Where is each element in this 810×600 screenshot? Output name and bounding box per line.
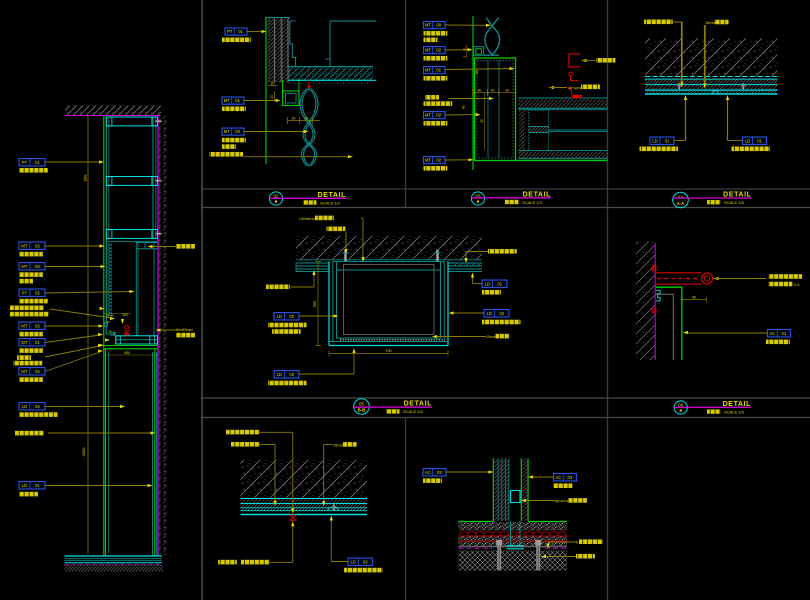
P2 label white translucent acrylic <box>210 152 244 157</box>
svg-text:60x60mm: 60x60mm <box>176 328 193 332</box>
P1 joint dims <box>104 313 131 315</box>
title block 02 DETAIL scale 1/2 <box>269 192 346 206</box>
P5 anchor bolts <box>344 250 346 261</box>
svg-text:01: 01 <box>497 282 502 287</box>
P6 cyan clip <box>656 290 660 301</box>
P7 label LD02 <box>348 558 373 566</box>
svg-text:B-B: B-B <box>358 408 365 413</box>
svg-text:700: 700 <box>385 349 391 353</box>
svg-text:95: 95 <box>475 70 479 74</box>
svg-text:LD: LD <box>652 139 657 144</box>
grid vertical divider x=405.5 bottom row <box>405 418 407 600</box>
P1 joint cyan bits <box>105 322 108 327</box>
P5 left wing layers <box>296 262 329 264</box>
P1 right label hang steel text <box>176 244 195 249</box>
P8 label AC02 <box>423 469 446 477</box>
P6 red LED track lines <box>655 272 701 274</box>
P4 layer lines <box>645 78 778 80</box>
P1 curtain section top line <box>106 240 157 242</box>
P7 layer lines <box>241 498 368 500</box>
svg-text:15mm: 15mm <box>486 335 497 339</box>
P5 dim 500 <box>317 262 319 346</box>
svg-text:01: 01 <box>35 483 40 488</box>
P3 bottom green line <box>516 159 608 161</box>
svg-text:LD: LD <box>22 483 27 488</box>
P1 wall hatch strip behind magenta <box>159 116 167 556</box>
svg-text:40*40*4: 40*40*4 <box>555 499 568 503</box>
svg-text:01: 01 <box>665 139 670 144</box>
title block 05 B-B DETAIL scale 1/3 <box>354 399 432 415</box>
P5 dim 700 <box>329 353 448 355</box>
P8 anchor bolts <box>496 540 502 546</box>
svg-text:20: 20 <box>292 116 296 120</box>
title block 03 DETAIL scale 1/3 <box>471 191 551 205</box>
P6 red wall clips <box>652 266 658 272</box>
svg-text:04: 04 <box>678 195 683 200</box>
svg-text:30: 30 <box>478 88 482 92</box>
svg-text:01: 01 <box>35 160 40 165</box>
P7 concrete slab hatch <box>241 460 368 498</box>
svg-text:25: 25 <box>304 116 308 120</box>
svg-text:06: 06 <box>678 402 683 407</box>
P6 wall hatch <box>636 242 655 361</box>
title block 04 A-A DETAIL scale 1/5 <box>673 192 752 208</box>
svg-text:LL4: LL4 <box>794 283 800 287</box>
P3 label MT02 metal 2 <box>424 112 446 119</box>
P8 floor speckle band <box>459 522 568 530</box>
P6 wall magenta line <box>654 243 656 360</box>
svg-text:6: 6 <box>576 541 578 545</box>
P4 fastener bolts <box>678 83 680 89</box>
P1 joint small arrows <box>100 307 105 310</box>
svg-text:02: 02 <box>35 291 40 296</box>
svg-text:MT: MT <box>21 340 27 345</box>
P1 bracket row <box>136 242 157 244</box>
P2 dim 20 left of trough <box>274 91 276 101</box>
P2 dim 20 25 below trough <box>288 120 321 122</box>
svg-text:L50x5mm: L50x5mm <box>299 217 316 221</box>
P5 label expansion bolt <box>327 227 346 232</box>
P5 label LD02 bottom <box>274 371 299 379</box>
svg-text:02: 02 <box>274 193 279 198</box>
P3 sign head green box <box>475 58 516 161</box>
svg-text:15mm: 15mm <box>333 442 344 447</box>
svg-text:MT: MT <box>21 244 27 249</box>
svg-text:MT: MT <box>21 324 27 329</box>
P1 curtain box verticals <box>135 242 137 336</box>
P3 vertical hatch band behind <box>519 110 525 158</box>
svg-text:30: 30 <box>505 88 509 92</box>
P1 floor hatch strokes <box>65 565 164 572</box>
P1 label MT00 wire mesh <box>19 263 45 271</box>
svg-text:800: 800 <box>83 174 88 181</box>
P2 label MT01 metal <box>222 97 244 104</box>
P2 acrylic braid <box>300 89 318 167</box>
P7 fastener bolt <box>333 504 335 510</box>
svg-text:20: 20 <box>491 88 495 92</box>
svg-text:MT: MT <box>425 68 431 73</box>
P2 structure above slab <box>329 21 331 67</box>
P1 dimension vertical line x=88 <box>87 116 89 555</box>
P8 connector tube <box>511 491 521 503</box>
svg-text:05: 05 <box>359 401 364 406</box>
P2 wall hatch band <box>268 18 290 83</box>
P1 front green vertical line <box>103 116 105 557</box>
svg-text:SCALE 1/2: SCALE 1/2 <box>320 200 341 205</box>
P1 floor magenta dashed line <box>65 563 164 565</box>
P1 cabinet rails <box>106 116 157 118</box>
svg-text:01: 01 <box>781 331 786 336</box>
P4 label LD01 left <box>650 137 674 145</box>
P3 angle steel label <box>549 86 554 89</box>
svg-text:15mm: 15mm <box>705 20 716 25</box>
grid horizontal line y=417.5 <box>202 417 810 419</box>
P1 ceiling slab hatch <box>65 106 161 116</box>
P1 sign box verticals <box>105 349 107 557</box>
svg-text:LD: LD <box>277 314 282 319</box>
svg-text:00: 00 <box>436 23 441 28</box>
P3 label MT02 metal 3 <box>424 157 446 164</box>
svg-text:MT: MT <box>224 98 230 103</box>
P3 internal cyan partitions <box>487 61 489 158</box>
P6 LED ring circle <box>702 273 713 284</box>
P8 centre post through floor <box>510 521 512 546</box>
P1 cabinet cyan verticals <box>105 117 107 334</box>
svg-text:02: 02 <box>436 48 441 53</box>
svg-text:03: 03 <box>567 475 572 480</box>
P5 label LD01 oak <box>482 280 507 288</box>
P5 label LD02 right <box>484 310 509 318</box>
P3 green vertical line <box>472 16 474 170</box>
P8 label AC03 <box>554 474 577 482</box>
grid horizontal line y=207.5 <box>202 207 810 209</box>
svg-text:3000: 3000 <box>81 447 86 457</box>
svg-text:01: 01 <box>436 68 441 73</box>
svg-text:500: 500 <box>313 301 317 307</box>
P5 label LD02 left <box>274 313 299 321</box>
svg-text:MT: MT <box>425 23 431 28</box>
P6 green bracket <box>656 287 682 360</box>
P4 slab bottom dashed cyan line <box>645 76 778 78</box>
svg-text:15: 15 <box>480 119 484 123</box>
svg-text:LD: LD <box>487 311 492 316</box>
P5 concrete slab hatch <box>296 236 482 260</box>
svg-text:AC: AC <box>425 470 431 475</box>
P6 label AC01 <box>768 330 791 338</box>
svg-text:AC: AC <box>555 475 561 480</box>
svg-text:LD: LD <box>485 282 490 287</box>
svg-text:SCALE 1/3: SCALE 1/3 <box>522 200 543 205</box>
svg-text:02: 02 <box>437 470 442 475</box>
svg-text:MT: MT <box>21 264 27 269</box>
svg-text:20: 20 <box>463 48 467 52</box>
P7 red trim X mark <box>290 515 296 520</box>
svg-text:MT: MT <box>425 113 431 118</box>
P5 trough wall teal lines <box>333 262 445 342</box>
P1 label LD02 metal face panel <box>19 403 45 411</box>
svg-text:02: 02 <box>436 113 441 118</box>
P3 stud box <box>529 110 549 151</box>
P4 label LD01 right <box>743 137 767 145</box>
grid vertical divider x=405.5 top row <box>405 0 407 208</box>
svg-text:LD: LD <box>350 560 355 565</box>
svg-text:02: 02 <box>35 404 40 409</box>
svg-text:LD: LD <box>745 139 750 144</box>
svg-text:AC: AC <box>769 331 775 336</box>
P3 internal dim vertical <box>484 93 486 150</box>
P8 left post <box>492 459 494 522</box>
P7 joint notch <box>328 508 338 511</box>
P8 base plate <box>507 545 525 547</box>
svg-text:02: 02 <box>436 158 441 163</box>
svg-text:00: 00 <box>35 264 40 269</box>
svg-text:PT: PT <box>227 29 233 34</box>
P8 label chemical anchor <box>576 554 595 559</box>
P1 red fixture symbol <box>125 325 129 329</box>
P6 gray liner <box>656 294 674 360</box>
P1 bottom return box <box>116 336 158 344</box>
svg-text:20: 20 <box>270 95 274 99</box>
P5 trough top crossing line <box>337 269 441 271</box>
P3 dim 30 20 30 <box>473 91 516 93</box>
P8 mid speckle <box>459 537 568 541</box>
P1 wall magenta vertical line <box>157 116 159 557</box>
svg-text:01: 01 <box>35 340 40 345</box>
P1 label PT01 gray paint <box>19 159 45 167</box>
P5 trough outer cyan <box>328 262 330 346</box>
svg-text:02: 02 <box>35 369 40 374</box>
P7 label strong glue <box>226 430 260 435</box>
P8 magenta dashed line <box>459 547 493 549</box>
P5 right wing layers <box>448 262 482 264</box>
P1 label MT02 metal <box>19 242 45 250</box>
P2 wall top cap <box>265 17 290 19</box>
svg-text:,: , <box>238 562 239 566</box>
P1 slab bottom magenta line <box>65 115 161 117</box>
svg-text:DETAIL: DETAIL <box>723 192 751 199</box>
svg-text:01: 01 <box>235 98 240 103</box>
title block 06 DETAIL scale 1/3 <box>674 401 751 415</box>
P1 label luminous sign text <box>17 355 31 360</box>
P8 right post <box>520 459 522 522</box>
P2 light trough inner cyan box <box>286 94 297 104</box>
P1 label PT02 white paint <box>19 289 45 297</box>
svg-text:20: 20 <box>271 82 275 86</box>
P5 trough bottom dashed fireboard band <box>340 339 444 341</box>
P7 label deco trim text <box>218 560 237 565</box>
svg-text:MT: MT <box>21 369 27 374</box>
P3 right long lines <box>518 108 607 110</box>
svg-text:00: 00 <box>235 129 240 134</box>
svg-text:LD: LD <box>22 404 27 409</box>
P6 label LED ring text <box>714 277 719 280</box>
P1 coil chain strip <box>107 243 112 316</box>
P1 label MT02 metal 3 <box>19 368 45 376</box>
svg-text:02: 02 <box>35 244 40 249</box>
P7 label wood hanger <box>231 442 260 447</box>
grid vertical divider x=202 <box>201 0 203 600</box>
P5 trough inner gray box <box>344 265 435 335</box>
svg-text:02: 02 <box>35 324 40 329</box>
P3 small tube square <box>474 47 484 56</box>
P3 label MT02 metal <box>424 47 446 54</box>
P3 red Z bracket with circle <box>569 72 573 76</box>
svg-text:02: 02 <box>289 372 294 377</box>
P3 right hatch band 2 <box>518 151 607 158</box>
svg-text:DETAIL: DETAIL <box>523 191 551 198</box>
P1 dim 450 <box>104 354 158 356</box>
P3 label MT00 wire mesh <box>424 22 446 29</box>
P1 label LD01 oak panel <box>19 482 45 490</box>
P3 wall lamp strip label <box>582 59 587 62</box>
P2 ceiling slab <box>289 67 374 80</box>
P2 green vertical line <box>265 17 267 164</box>
P1 label MT01 brown acrylic <box>19 339 45 347</box>
P2 dim 20 top <box>268 85 278 87</box>
svg-text:PT: PT <box>22 291 28 296</box>
P1 label hidden LED strip text <box>10 306 44 311</box>
P8 red arc row <box>460 531 567 535</box>
P3 red C bracket <box>569 54 580 67</box>
svg-text:PT: PT <box>22 160 28 165</box>
svg-text:MT: MT <box>425 158 431 163</box>
svg-text:LD: LD <box>277 372 282 377</box>
P6 dim 50 <box>682 299 707 301</box>
P8 floor top green lines <box>459 521 494 523</box>
svg-text:40*40*4: 40*40*4 <box>568 86 582 90</box>
P1 label MT02 metal 2 <box>19 322 45 330</box>
svg-text:DETAIL: DETAIL <box>404 401 432 408</box>
svg-text:450: 450 <box>124 351 130 355</box>
P3 right hatch band 1 <box>518 97 607 99</box>
P2 slab fastener dot row <box>289 82 373 84</box>
svg-text:200: 200 <box>122 313 128 317</box>
P8 concrete base cross hatch <box>459 551 568 571</box>
P1 sign top green lines <box>104 345 158 347</box>
svg-text:A-A: A-A <box>677 201 684 206</box>
P2 step trim cyan <box>290 21 296 67</box>
P2 light trough green box <box>283 91 300 106</box>
svg-text:02: 02 <box>499 311 504 316</box>
P3 label MT01 brown acrylic <box>424 67 446 74</box>
P4 joint notch <box>713 91 718 94</box>
svg-text:DETAIL: DETAIL <box>318 192 346 199</box>
grid horizontal line y=398 <box>202 397 810 399</box>
svg-text:50: 50 <box>692 295 696 299</box>
svg-text:SCALE 1/5: SCALE 1/5 <box>724 200 745 205</box>
P2 red centerline and arrow <box>308 67 310 82</box>
svg-text:01: 01 <box>238 29 243 34</box>
P1 floor band <box>65 555 163 557</box>
P2 label PT01 gray paint <box>225 28 247 35</box>
grid horizontal line y=189 <box>202 188 810 190</box>
svg-text:MT: MT <box>224 129 230 134</box>
svg-text:SCALE 1/3: SCALE 1/3 <box>724 409 745 414</box>
svg-text:MT: MT <box>425 48 431 53</box>
P4 concrete slab hatch <box>645 38 778 77</box>
P5 label wood hanger right <box>488 249 517 254</box>
P1 label wood board hanger text <box>15 431 44 436</box>
P2 label MT00 wire mesh <box>222 128 244 135</box>
svg-text:60: 60 <box>108 329 112 333</box>
svg-text:01: 01 <box>757 139 762 144</box>
svg-text:80: 80 <box>462 105 466 109</box>
P3 label luminous sign text <box>425 95 439 100</box>
svg-text:02: 02 <box>289 314 294 319</box>
P3 acrylic braid top <box>486 18 500 56</box>
svg-text:DETAIL: DETAIL <box>723 401 751 408</box>
svg-text:SCALE 1/3: SCALE 1/3 <box>403 409 424 414</box>
svg-text:02: 02 <box>363 560 368 565</box>
grid vertical divider x=607.5 <box>607 0 609 600</box>
P5 label wall paint left <box>266 285 290 290</box>
P4 label wood hanger <box>644 20 673 25</box>
